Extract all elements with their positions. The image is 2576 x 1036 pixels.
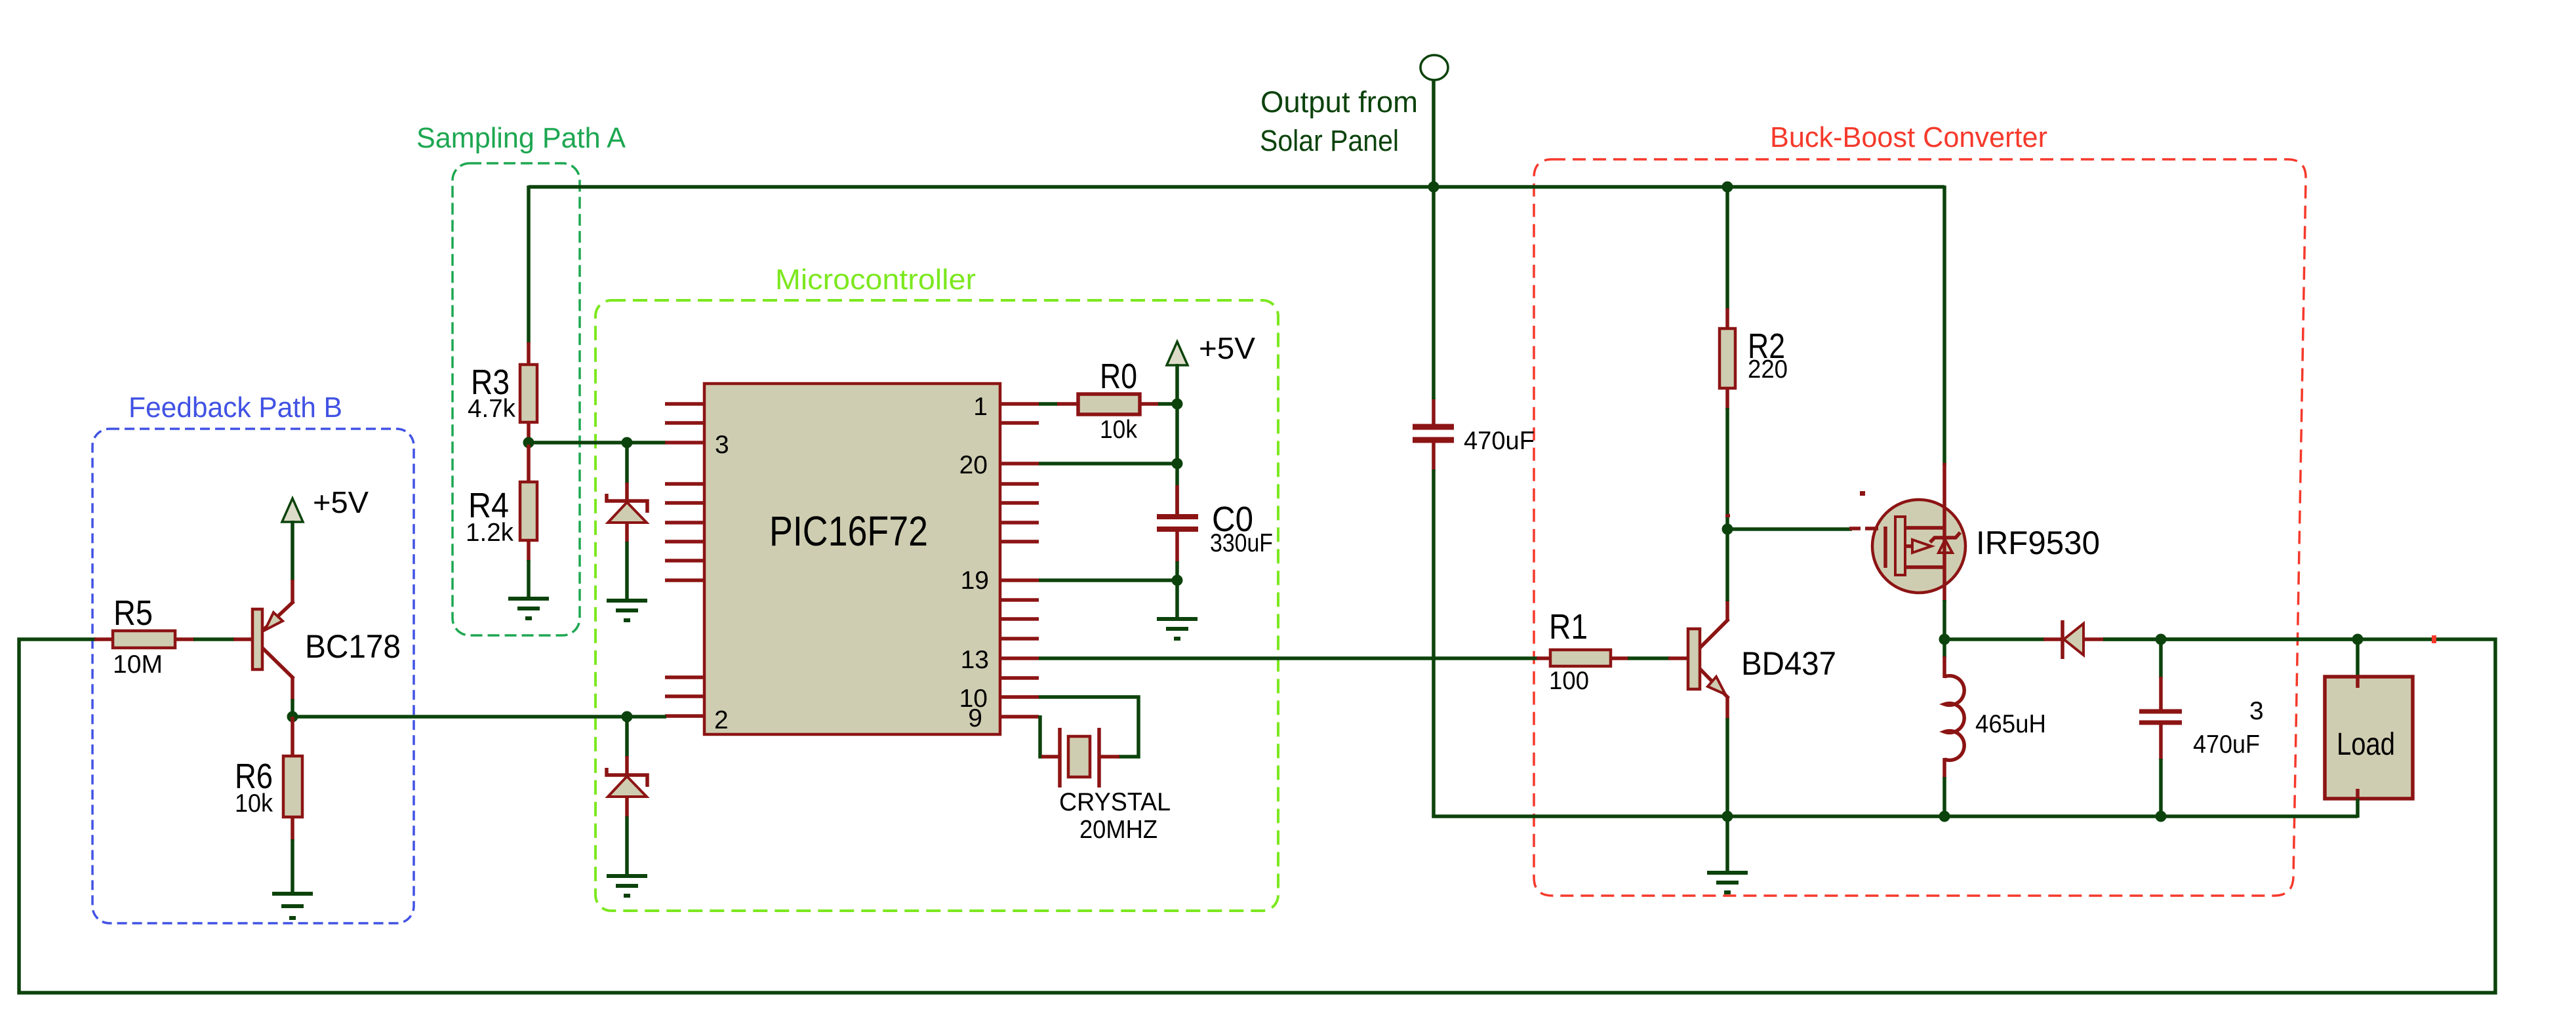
svg-text:1.2k: 1.2k — [466, 519, 513, 547]
wire: input cap top — [1432, 187, 1436, 399]
wire: +5V to emitter — [291, 521, 294, 581]
node: zener D2 tap — [622, 711, 633, 723]
node: inductor / ground bus junction — [1939, 811, 1950, 822]
wire: top bus horizontal — [529, 185, 1944, 189]
artifact: stray red dot near MOSFET — [1860, 491, 1865, 496]
wire: R5 to BC178 base — [193, 637, 235, 641]
svg-text:3: 3 — [715, 431, 729, 459]
svg-text:Solar Panel: Solar Panel — [1260, 124, 1399, 157]
artifact: red tick above gate node — [1725, 514, 1730, 517]
diode D3 — [2043, 620, 2104, 659]
node: pin20 junction — [1172, 458, 1183, 469]
wire: C0 to pin19 node — [1175, 561, 1179, 619]
wire: ground stem (buck) — [1725, 816, 1729, 873]
svg-text:10k: 10k — [1100, 416, 1137, 444]
svg-text:BC178: BC178 — [305, 628, 401, 665]
resistor R0 — [1057, 394, 1159, 414]
node: load top junction — [2352, 634, 2364, 645]
power symbol +5V (BC178 emitter) — [282, 498, 303, 522]
transistor Q2 BC178 (PNP) — [233, 580, 294, 700]
node: BC178 collector / R6 junction — [287, 711, 298, 723]
svg-text:Load: Load — [2337, 727, 2395, 762]
svg-text:3: 3 — [2249, 697, 2264, 725]
capacitor C1 470uF (input) — [1413, 398, 1454, 471]
inductor L1 465uH — [1944, 639, 1964, 816]
ground (R4) — [508, 599, 549, 618]
node: R2 bottom / gate / BD437 collector — [1722, 524, 1733, 535]
wire: R4 to ground — [527, 560, 531, 599]
resistor R3 — [520, 342, 537, 441]
svg-text:10k: 10k — [235, 789, 273, 818]
wire: load top pin — [2356, 639, 2360, 678]
svg-text:470uF: 470uF — [1464, 427, 1535, 455]
wire: terminal to top bus — [1432, 80, 1436, 187]
ground (D1) — [607, 601, 647, 620]
resistor R5 — [94, 631, 195, 648]
svg-text:Microcontroller: Microcontroller — [775, 264, 976, 296]
wire: BC178 collector to node — [291, 699, 294, 717]
wire: R6 to ground — [291, 839, 294, 894]
wire: BD437 collector up to gate node — [1725, 529, 1729, 601]
node: BD437 emitter / ground bus junction — [1722, 811, 1733, 822]
wire: output node to diode — [1944, 637, 2045, 641]
terminal: solar panel input — [1420, 55, 1448, 80]
section box: Feedback Path B (blue dashed) — [92, 429, 414, 923]
wire: MOSFET source to output node — [1942, 600, 1946, 639]
svg-text:9: 9 — [968, 704, 982, 732]
wire: BD437 emitter down to ground bus — [1725, 718, 1729, 816]
svg-text:IRF9530: IRF9530 — [1976, 525, 2100, 561]
svg-text:CRYSTAL: CRYSTAL — [1059, 788, 1171, 816]
wire: input cap bottom to ground bus — [1434, 469, 2358, 816]
wire: pin19 to rail — [1039, 578, 1177, 582]
wire: pin20 to rail — [1039, 462, 1177, 466]
U1 left pin stubs — [665, 404, 706, 716]
node: R2 top junction — [1722, 182, 1733, 193]
node: pin1 junction — [1172, 399, 1183, 410]
svg-text:Buck-Boost Converter: Buck-Boost Converter — [1770, 121, 2047, 153]
U1 right pin stubs — [999, 404, 1039, 717]
wire: bus down to R3 — [527, 186, 531, 344]
ground (buck converter) — [1707, 873, 1748, 892]
capacitor C0 — [1157, 485, 1198, 563]
svg-text:13: 13 — [961, 646, 989, 674]
wire: pin2 net from BC178 collector node — [292, 715, 666, 719]
resistor R4 — [520, 445, 537, 561]
svg-text:+5V: +5V — [313, 485, 369, 519]
svg-text:Sampling Path A: Sampling Path A — [416, 122, 626, 154]
load RL — [2325, 677, 2413, 799]
microcontroller U1 PIC16F72 — [704, 384, 1000, 734]
wire: diode to output cap node — [2103, 637, 2161, 641]
label: Output from Solar Panel — [1260, 85, 1418, 157]
svg-text:Output from: Output from — [1260, 85, 1418, 119]
wire: pin10 to crystal — [1039, 697, 1138, 757]
svg-text:220: 220 — [1748, 355, 1788, 384]
svg-text:4.7k: 4.7k — [468, 395, 515, 423]
svg-text:PIC16F72: PIC16F72 — [769, 508, 928, 555]
svg-text:R0: R0 — [1100, 357, 1137, 396]
svg-text:465uH: 465uH — [1975, 710, 2046, 738]
node: output cap / ground bus junction — [2156, 811, 2167, 822]
svg-text:1: 1 — [973, 393, 988, 421]
wire: R0 to +5V rail — [1158, 402, 1177, 406]
wire: output loop (right side, bottom, left side, to R5) — [19, 639, 2495, 993]
svg-text:20: 20 — [959, 451, 988, 479]
svg-text:R1: R1 — [1549, 607, 1588, 647]
node: R3/R4 junction (pin3 net) — [523, 437, 534, 448]
zener diode D2 — [607, 717, 647, 876]
svg-text:20MHZ: 20MHZ — [1079, 816, 1157, 844]
svg-text:2: 2 — [714, 706, 729, 734]
wire: pin3 net horizontal — [529, 441, 666, 445]
node: solar input junction — [1428, 182, 1439, 193]
transistor Q3 IRF9530 (P-MOSFET) — [1849, 463, 1965, 601]
resistor R2 — [1720, 187, 1735, 529]
node: output cap top junction — [2156, 634, 2167, 645]
artifact: red tick on top-right wire — [2432, 635, 2436, 643]
svg-text:+5V: +5V — [1199, 331, 1255, 365]
svg-text:330uF: 330uF — [1210, 529, 1273, 557]
capacitor C2 470uF (output) — [2139, 639, 2182, 816]
wire: R1 to BD437 base — [1628, 656, 1670, 660]
svg-text:100: 100 — [1549, 667, 1589, 695]
resistor R6 — [283, 717, 302, 841]
ground (D2) — [607, 876, 647, 896]
section box: Microcontroller (bright green dashed) — [595, 300, 1278, 911]
zener diode D1 — [607, 443, 647, 601]
crystal X1 20MHz — [1041, 728, 1119, 787]
resistor R1 — [1537, 650, 1629, 666]
svg-text:R5: R5 — [113, 593, 153, 633]
node: MOSFET/inductor/diode junction — [1939, 634, 1950, 645]
wire: pin9 to crystal — [1040, 715, 1043, 757]
wire: load bottom pin to ground bus — [2356, 799, 2360, 818]
ground (C0 rail) — [1157, 619, 1197, 639]
svg-text:Feedback Path B: Feedback Path B — [129, 391, 342, 424]
ground (R6) — [272, 894, 313, 918]
wire: output node to load — [2161, 637, 2358, 641]
wire: pin1 to R0 — [1039, 402, 1058, 406]
svg-text:19: 19 — [961, 567, 989, 595]
node: pin19 junction — [1172, 575, 1183, 586]
section box: Buck-Boost Converter (red dashed) — [1534, 159, 2306, 896]
svg-text:BD437: BD437 — [1741, 645, 1836, 682]
wire: +5V rail vertical — [1175, 364, 1179, 517]
wire: gate net — [1727, 527, 1852, 531]
wire: pin13 net to R1 — [1039, 656, 1538, 660]
section box: Sampling Path A (green dashed) — [453, 163, 580, 635]
transistor Q1 BD437 (NPN) — [1668, 600, 1729, 719]
wire: top bus right drop to MOSFET drain — [1942, 186, 1946, 466]
power symbol +5V (rail) — [1167, 342, 1188, 365]
node: zener D1 tap — [622, 437, 633, 448]
svg-text:470uF: 470uF — [2193, 730, 2260, 759]
svg-text:10M: 10M — [113, 650, 163, 679]
